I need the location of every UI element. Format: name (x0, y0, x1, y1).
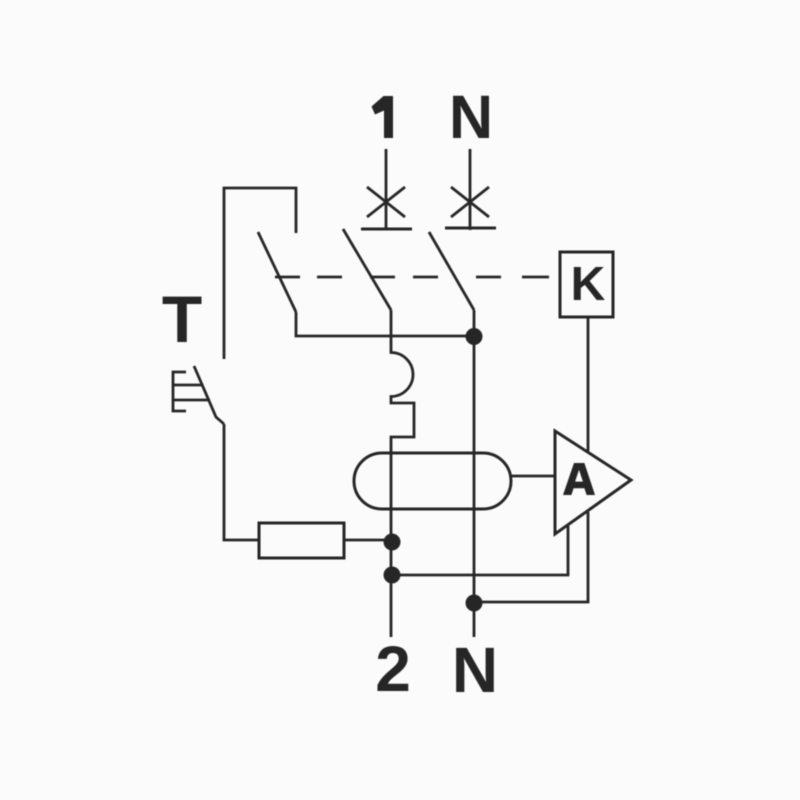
mechanism dashed link to K (275, 276, 549, 279)
test button blade (194, 366, 224, 424)
pole N conductor (473, 310, 476, 637)
junction node (supply tap) (384, 567, 401, 584)
relay K wire to N bottom node (474, 317, 588, 602)
svg-text:N: N (449, 83, 493, 151)
amplifier label (563, 463, 595, 495)
toroid secondary wire to amplifier (511, 475, 555, 478)
pole N moving blade (429, 232, 474, 310)
svg-text:T: T (162, 282, 202, 356)
terminal N clamp cross (451, 187, 489, 217)
junction node (N bottom) (466, 595, 483, 612)
amplifier supply wire to resistor node (392, 526, 568, 575)
wire resistor to node (344, 539, 392, 542)
test pole moving blade (258, 232, 296, 312)
svg-text:K: K (571, 258, 606, 311)
current transformer toroid (354, 453, 511, 509)
terminal N lead wire (469, 149, 472, 230)
test circuit wire to resistor (224, 424, 259, 540)
terminal N clamp bar (445, 227, 496, 230)
terminal 1 clamp cross (367, 187, 405, 217)
resistor R (test resistor) (259, 523, 344, 558)
test button actuator (173, 372, 210, 411)
terminal label 1 (372, 96, 394, 138)
svg-text:2: 2 (375, 633, 411, 705)
pole 1 conductor with overcurrent release (thermal + magnetic) (391, 310, 414, 637)
test circuit wire (T branch up and over to fixed contact) (224, 188, 296, 359)
terminal 1 lead wire (385, 149, 388, 230)
svg-text:N: N (452, 634, 498, 706)
junction node (resistor tap) (384, 534, 401, 551)
pole 1 moving blade (343, 229, 391, 310)
relay K box (560, 252, 613, 317)
test pole wire to N node (296, 312, 474, 336)
amplifier A triangle (555, 431, 631, 534)
junction node (N load side) (466, 328, 483, 345)
terminal 1 clamp bar (361, 228, 412, 231)
